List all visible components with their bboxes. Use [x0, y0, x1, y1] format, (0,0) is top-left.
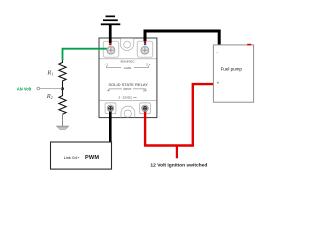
Link G4+ ECU box: [51, 142, 112, 169]
wire SSR terminal 2 to fuel pump negative (black): [144, 31, 219, 45]
red terminal tick: [247, 44, 251, 46]
svg-text:3 - 32VDC ==: 3 - 32VDC ==: [118, 96, 137, 100]
terminal pad 1: [103, 41, 119, 57]
INPUT bracket: [109, 89, 146, 91]
top mounting notch: [120, 38, 134, 50]
bottom mounting notch: [121, 106, 135, 117]
top mounting hole: [124, 41, 131, 48]
wire power symbol to SSR terminal 1 (black): [109, 25, 112, 45]
svg-text:90A 8VDC: 90A 8VDC: [120, 59, 135, 63]
svg-text:Link G4+: Link G4+: [64, 155, 80, 160]
svg-text:INPUT: INPUT: [123, 87, 132, 91]
terminal pad 2: [137, 41, 153, 57]
solid state relay U1: [99, 38, 157, 118]
resistor R2: [59, 89, 66, 115]
wire SSR terminal 3 to fuel pump positive (red): [145, 84, 214, 145]
power symbol (inverted earth ground): [101, 16, 121, 26]
bottom mounting hole: [124, 110, 131, 117]
svg-text:R2: R2: [46, 93, 53, 100]
svg-text:LOAD: LOAD: [124, 66, 132, 70]
svg-text:PWM: PWM: [85, 155, 99, 161]
svg-text:AN Volt: AN Volt: [17, 87, 32, 92]
svg-text:+: +: [217, 81, 220, 86]
wire SSR terminal 1 to R1 (green): [63, 49, 107, 61]
LOAD bracket: [107, 66, 149, 68]
terminal pad 4: [105, 103, 116, 114]
screw terminal 1: [107, 46, 115, 54]
divider line top: [100, 58, 157, 60]
svg-text:-4: -4: [106, 88, 109, 92]
fuel pump M1: [213, 44, 253, 102]
wire stub 12V ignition (red): [176, 146, 178, 159]
divider line bottom: [100, 99, 157, 101]
svg-text:R1: R1: [46, 69, 53, 76]
svg-text:Fuel pump: Fuel pump: [221, 67, 243, 72]
screw terminal 4: [107, 105, 114, 112]
ground: [56, 126, 69, 130]
svg-text:12 Volt ignition switched: 12 Volt ignition switched: [150, 162, 207, 168]
node junction R1/R2: [61, 87, 64, 90]
screw terminal 2: [141, 46, 149, 54]
svg-text:3+: 3+: [143, 88, 147, 92]
terminal pad 3: [140, 103, 151, 114]
screw terminal 3: [142, 105, 149, 112]
wire AN Volt tap: [37, 87, 63, 90]
resistor R1: [59, 60, 66, 88]
wire SSR terminal 4 to Link ECU (black): [109, 112, 112, 144]
SSR body: [99, 38, 157, 118]
wire R2 to ground (gray): [62, 114, 64, 126]
